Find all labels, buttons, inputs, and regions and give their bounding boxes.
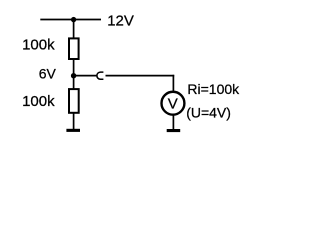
node divider junction dot (6V node) — [71, 73, 76, 78]
voltmeter U1 circle — [162, 92, 185, 115]
wire top supply rail — [40, 19, 101, 21]
svg-text:12V: 12V — [107, 12, 134, 29]
wire down to voltmeter — [172, 75, 174, 92]
wire from R1 to divider node — [73, 60, 75, 90]
resistor R2 (lower 100k) — [69, 89, 79, 113]
ground bar left (divider) — [66, 129, 80, 132]
svg-text:V: V — [168, 95, 178, 112]
svg-text:Ri=100k: Ri=100k — [187, 81, 240, 97]
wire from node to terminal — [74, 75, 98, 77]
svg-text:6V: 6V — [39, 66, 57, 82]
wire R2 to ground — [73, 113, 75, 130]
wire from 12V rail to resistor R1 — [73, 20, 75, 39]
wire from terminal to voltmeter branch — [106, 75, 175, 77]
svg-text:100k: 100k — [22, 93, 55, 110]
resistor R1 (upper 100k) — [69, 38, 79, 59]
terminal open connector c — [97, 72, 104, 79]
svg-text:(U=4V): (U=4V) — [186, 104, 231, 120]
wire voltmeter to ground — [172, 115, 174, 131]
ground bar right (voltmeter) — [167, 129, 181, 132]
svg-text:100k: 100k — [22, 37, 55, 54]
node junction dot at 12V rail — [71, 17, 76, 22]
